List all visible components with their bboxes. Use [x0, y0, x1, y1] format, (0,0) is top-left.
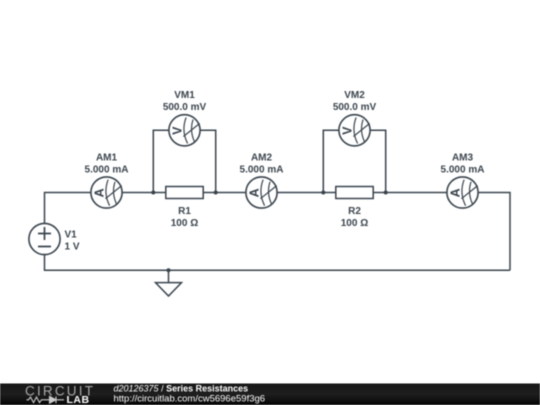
svg-text:V: V [171, 126, 185, 135]
svg-text:1 V: 1 V [65, 242, 80, 253]
svg-text:AM2: AM2 [251, 153, 273, 164]
wire VM2 left leg [323, 130, 339, 192]
svg-text:d20126375 / Series Resistances: d20126375 / Series Resistances [114, 383, 249, 393]
resistor R1 [166, 187, 203, 199]
ammeter AM3 [447, 177, 478, 208]
wire VM1 left leg [153, 130, 169, 192]
svg-text:V1: V1 [65, 230, 78, 241]
wire R1 to AM2 [203, 192, 246, 194]
junction node VM1 right [214, 191, 218, 195]
svg-text:A: A [248, 188, 262, 197]
svg-text:500.0 mV: 500.0 mV [163, 102, 207, 113]
wire bottom rail to V1 bottom [45, 255, 511, 271]
svg-text:http://circuitlab.com/cw5696e5: http://circuitlab.com/cw5696e59f3g6 [114, 394, 266, 405]
junction node VM2 left [321, 191, 325, 195]
ammeter AM1 [91, 177, 122, 208]
svg-text:5.000 mA: 5.000 mA [441, 164, 485, 175]
voltmeter VM1 [169, 115, 200, 146]
svg-text:100 Ω: 100 Ω [341, 218, 368, 229]
wire V1 top to AM1 (left rail + main wire start) [45, 193, 91, 224]
wire AM1 to R1 [122, 192, 166, 194]
svg-text:V: V [341, 126, 355, 135]
svg-text:5.000 mA: 5.000 mA [85, 164, 129, 175]
svg-text:VM2: VM2 [344, 90, 365, 101]
svg-text:AM1: AM1 [96, 153, 118, 164]
voltmeter VM2 [339, 115, 370, 146]
ammeter AM2 [246, 177, 277, 208]
resistor R2 [336, 187, 373, 199]
wire AM2 to R2 [277, 192, 336, 194]
svg-text:500.0 mV: 500.0 mV [333, 102, 377, 113]
wire R2 to AM3 [373, 192, 447, 194]
wire AM3 to right rail down [478, 193, 510, 271]
svg-text:A: A [449, 188, 463, 197]
svg-text:R2: R2 [348, 206, 361, 217]
wire ground stub [168, 270, 170, 282]
junction node ground [167, 268, 171, 272]
voltage source V1 [29, 223, 60, 254]
junction node VM1 left [151, 191, 155, 195]
junction node VM2 right [384, 191, 388, 195]
footer bar [0, 384, 540, 405]
svg-text:AM3: AM3 [452, 153, 474, 164]
svg-text:100 Ω: 100 Ω [171, 218, 198, 229]
svg-text:VM1: VM1 [174, 90, 195, 101]
svg-text:5.000 mA: 5.000 mA [240, 164, 284, 175]
CircuitLab logo resistor-diode symbol [27, 396, 65, 403]
svg-text:LAB: LAB [67, 394, 90, 405]
ground [156, 283, 182, 296]
svg-text:A: A [93, 188, 107, 197]
svg-text:R1: R1 [178, 206, 191, 217]
wire VM2 right leg [370, 130, 386, 192]
wire VM1 right leg [200, 130, 216, 192]
